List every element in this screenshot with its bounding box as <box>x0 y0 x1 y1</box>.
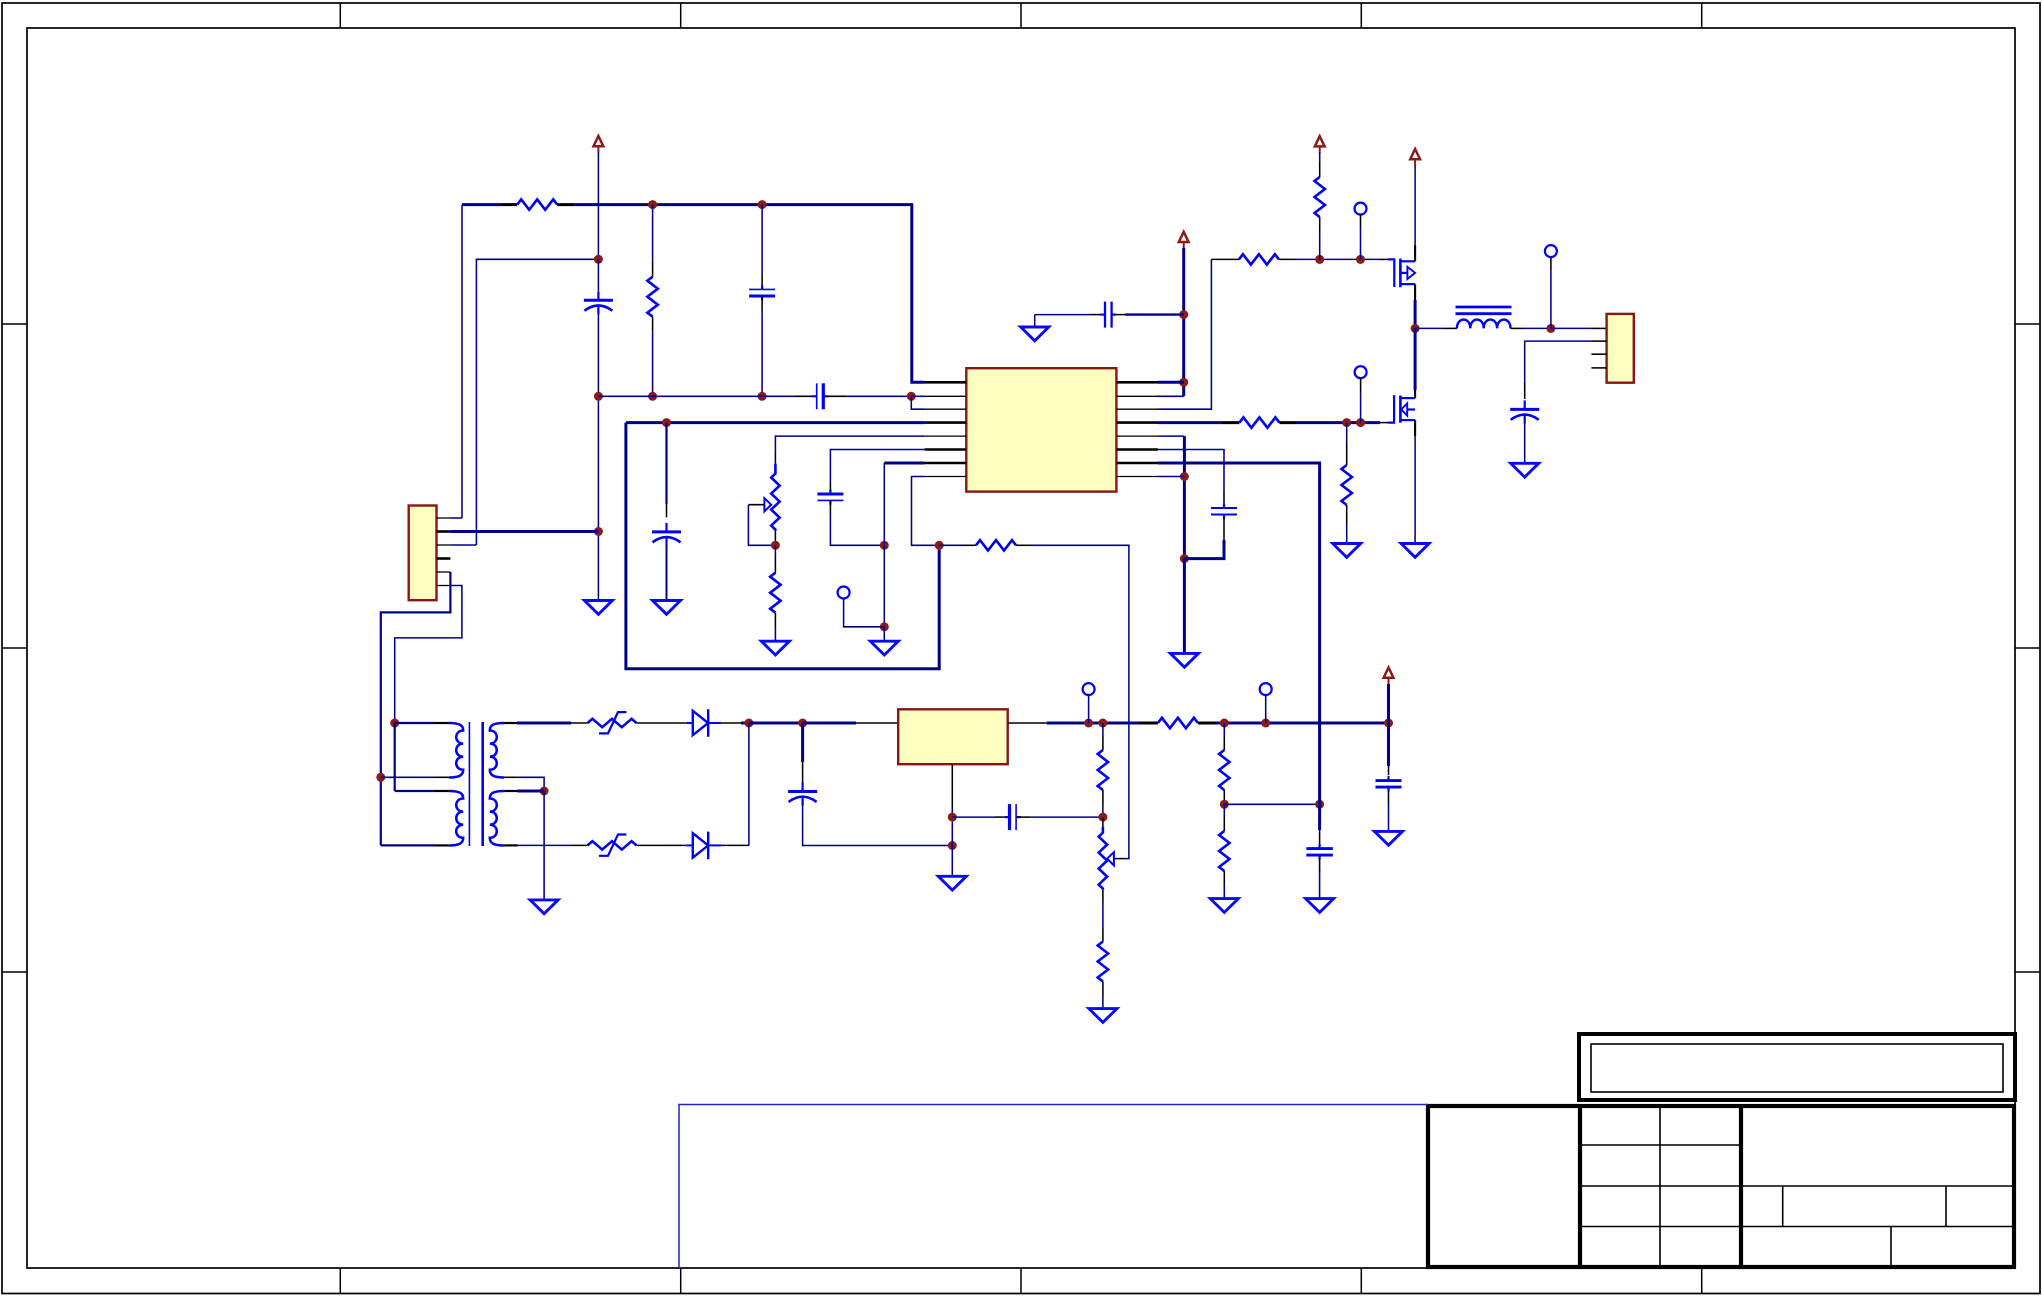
wire C2 bottom <box>761 311 763 396</box>
wire TP2 stub <box>1088 695 1090 723</box>
resistor R9 <box>1219 831 1229 871</box>
capacitor C3 <box>812 383 828 409</box>
junction C6 top <box>798 719 807 728</box>
resistor R13 <box>1342 465 1352 505</box>
trimmer RV1 zigzag <box>771 464 779 531</box>
wire TP5 stub <box>1360 392 1362 423</box>
wire to ground <box>1183 559 1186 654</box>
wire C8 gnd stem <box>1034 315 1036 327</box>
U2 pin 1 lead <box>437 517 451 519</box>
wire R13 bottom lead <box>1346 505 1348 523</box>
junction C1 line / U2 pin2 <box>594 527 603 536</box>
wire primary A bottom lead black <box>435 776 449 778</box>
wire top rail to pin1 <box>574 205 924 383</box>
J1 pin4 stub <box>1591 367 1606 369</box>
wire R7 to ground <box>1102 996 1104 1009</box>
wire RT1 to D1 <box>637 722 687 724</box>
wire C10 to ground <box>1388 804 1390 831</box>
transformer T1 primary winding A <box>449 723 463 778</box>
wire U2 pin2 to C1 ground net <box>450 530 598 533</box>
wire pin2R to VDD <box>1158 395 1184 397</box>
title block right cell divider a <box>1782 1186 1784 1227</box>
junction pin8R <box>1180 472 1189 481</box>
wire R9 top <box>1223 804 1225 817</box>
wire C11 bottom <box>1184 540 1224 559</box>
wire M1 source to SW <box>1414 300 1417 328</box>
wire rectifier node <box>749 722 803 725</box>
junction R2 / pin2 net <box>648 392 657 401</box>
wire M2 source lead <box>1414 420 1416 436</box>
wire R6 top <box>1102 723 1104 736</box>
U1 left pin 4 lead <box>925 421 967 424</box>
junction primary top <box>390 719 399 728</box>
wire U3 ground down <box>951 808 953 876</box>
junction VOUT <box>1546 324 1555 333</box>
wire R9 top lead <box>1223 817 1225 831</box>
wire trimmer2 wiper lead <box>1114 858 1124 860</box>
wire R11 top lead <box>1319 162 1321 177</box>
title block right row line 2 <box>1741 1226 2014 1228</box>
U1 right pin 15 lead <box>1116 462 1158 465</box>
wire center tap link <box>517 777 544 791</box>
wire R1 right lead <box>557 203 574 206</box>
wire R2 bottom <box>652 331 654 396</box>
ground R13 <box>1333 544 1361 558</box>
wire C7 right lead <box>1016 816 1030 818</box>
inductor L1 <box>1457 320 1511 329</box>
wire J1 pin2 lead <box>1591 340 1606 342</box>
bottom margin zone tick 1 <box>339 1268 341 1294</box>
junction pin4L / C4 <box>662 418 671 427</box>
junction pin7L node <box>880 541 889 550</box>
wire C4 top lead <box>666 504 668 517</box>
U1 left pin 5 lead <box>925 435 967 437</box>
U2 pin 4 lead <box>437 557 451 560</box>
wire TP1 stub <box>844 599 885 627</box>
wire U3 ground lead <box>951 764 953 808</box>
wire gate M2 lead <box>1380 422 1388 424</box>
test point TP1 <box>838 587 850 599</box>
polarized capacitor C4 <box>652 523 681 546</box>
ground C8 <box>1021 327 1049 341</box>
wire C7 left lead <box>995 816 1010 818</box>
top margin zone tick 4 <box>1360 3 1362 28</box>
junction VDD / C8 <box>1179 310 1188 319</box>
resistor R1 <box>517 199 557 209</box>
title block heavy divider 1 <box>1578 1106 1582 1267</box>
wire TP6 stub <box>1550 270 1552 328</box>
capacitor C9 <box>1306 844 1333 860</box>
title block middle thin vertical <box>1659 1106 1661 1267</box>
junction C1 line / pin2 net <box>594 392 603 401</box>
wire U2 pin1 jog <box>450 517 462 519</box>
resistor R10 <box>1239 254 1279 264</box>
wire U3 output lead <box>1008 722 1047 724</box>
top margin zone tick 2 <box>680 3 682 28</box>
wire R6 bottom lead <box>1102 790 1104 804</box>
wire TP6 stub lead <box>1550 257 1552 270</box>
wire TP3 stub <box>1265 695 1267 723</box>
capacitor C5 <box>817 489 843 505</box>
top margin zone tick 3 <box>1020 3 1022 28</box>
wire R5 left lead <box>1139 722 1158 725</box>
wire R2 bottom lead <box>652 317 654 332</box>
transistor M1 <box>1388 259 1415 288</box>
wire J1 pin2 to C12 <box>1525 341 1592 382</box>
ground R7 <box>1089 1009 1117 1023</box>
wire C5 to node <box>830 514 884 545</box>
capacitor C7 <box>1005 804 1021 830</box>
ground pin5R net <box>1170 653 1198 667</box>
test point TP6 <box>1545 245 1557 257</box>
wire pin4L run <box>626 421 925 424</box>
wire RV1 wiper to bottom <box>748 505 775 546</box>
transformer T1 primary winding B <box>449 791 463 846</box>
test point TP2 <box>1083 683 1095 695</box>
wire C3 left lead <box>794 395 814 397</box>
wire VCC3 down <box>1319 152 1321 162</box>
wire C10 top lead <box>1388 766 1390 775</box>
U1 right pin 11 lead <box>1116 408 1158 410</box>
wire pin5R <box>1158 435 1184 437</box>
test point TP4 <box>1355 203 1367 215</box>
wire M2 source to ground <box>1414 436 1416 543</box>
wire R4 to ground <box>774 628 776 642</box>
left margin zone tick 1 <box>2 323 27 325</box>
ground C9 <box>1306 899 1334 913</box>
transistor M2 <box>1388 395 1415 423</box>
resistor R7 <box>1098 942 1108 982</box>
wire R11 bottom lead <box>1319 217 1321 232</box>
wire to ground <box>883 627 885 641</box>
resistor R5 <box>1158 718 1198 728</box>
ground C10 <box>1375 831 1403 845</box>
ground C4 <box>653 601 681 615</box>
resistor R4 <box>770 573 780 613</box>
wire C9 top <box>1318 804 1321 830</box>
wire gate M1 <box>1296 258 1380 260</box>
wire C4 top <box>665 423 667 505</box>
wire primary B bottom lead black <box>435 844 449 846</box>
transformer T1 secondary winding B <box>490 791 504 846</box>
wire R8 bottom lead <box>1223 790 1225 804</box>
wire U2 pin3 jog <box>450 544 476 546</box>
junction bus TP3 <box>1261 719 1270 728</box>
junction pin2/pin3 branch <box>907 392 916 401</box>
test point TP3 <box>1260 683 1272 695</box>
right margin zone tick 3 <box>2015 971 2040 973</box>
transformer core line 2 <box>481 722 484 846</box>
wire C5 top lead <box>829 482 831 494</box>
power arrow VCC3 <box>1315 136 1325 153</box>
J1 pin3 stub <box>1591 353 1606 355</box>
wire R10 right lead <box>1279 258 1296 260</box>
wire pin8L loop <box>912 477 940 546</box>
polarized capacitor C12 <box>1510 400 1539 423</box>
wire primary B top lead black <box>435 790 449 792</box>
title block middle row line 1 <box>1580 1144 1741 1146</box>
wire node to TP junction <box>883 545 885 627</box>
ground center tap <box>530 900 558 914</box>
junction primary mid <box>376 773 385 782</box>
wire D1 to node <box>741 722 749 725</box>
power arrow VCC1 <box>594 136 604 153</box>
U1 left pin 7 lead <box>925 462 967 465</box>
wire C9 top lead <box>1319 830 1321 845</box>
wire C12 to ground <box>1524 422 1526 463</box>
junction center tap <box>540 787 549 796</box>
wire to U3 input <box>803 722 856 725</box>
junction U3 gnd / C7 <box>948 813 957 822</box>
thermistor RT2 <box>588 841 637 849</box>
wire SW to L1 <box>1415 327 1443 329</box>
title block main heavy box <box>1428 1106 2014 1267</box>
wire center tap to ground <box>543 791 545 900</box>
junction VDD / pin1R <box>1179 378 1188 387</box>
notes area blue outline <box>679 1105 1428 1269</box>
wire C12 top lead <box>1524 382 1526 399</box>
wire bus to VCC2 <box>1216 722 1389 725</box>
wire R1 left lead <box>502 203 517 206</box>
U1 left pin 2 lead <box>925 395 967 397</box>
junction gate M2 / TP5 <box>1356 418 1365 427</box>
wire R3 to trimmer2 wiper <box>1031 545 1129 858</box>
wire C2 top lead <box>761 275 763 289</box>
wire M2 drain to SW <box>1414 328 1417 390</box>
wire M1 drain to VCC4 <box>1414 165 1416 245</box>
wire C2 top <box>761 205 763 275</box>
wire U2 pin5 to primary bottom <box>381 572 451 845</box>
junction top rail / R2 <box>648 200 657 209</box>
wire L1 to VOUT node <box>1524 327 1551 329</box>
wire RV1 wiper lead <box>748 504 764 506</box>
title block heavy divider 2 <box>1739 1106 1743 1267</box>
transformer T1 secondary winding A <box>490 723 504 778</box>
wire C3 to pin2 <box>846 395 911 397</box>
wire secondary B to RT2 <box>518 844 572 846</box>
wire C8 right lead <box>1115 314 1125 316</box>
wire RV2 top lead <box>1102 817 1104 827</box>
wire C7 left <box>952 816 995 818</box>
resistor R11 <box>1315 177 1325 217</box>
junction SW node <box>1411 324 1420 333</box>
connector J1 <box>1607 314 1634 383</box>
top margin zone tick 1 <box>339 3 341 28</box>
wire M1 drain lead <box>1414 245 1416 261</box>
wire primary A bottom lead <box>381 776 435 778</box>
wire R7 top lead <box>1102 928 1104 942</box>
wire primary B top lead <box>395 790 435 792</box>
wire pin4R gate run <box>1158 421 1222 424</box>
ground C1 <box>584 601 612 615</box>
wire pin4L loop <box>626 423 939 669</box>
wire branch to pin3 <box>911 396 924 409</box>
junction bus R8 chain <box>1220 719 1229 728</box>
wire RV1 to R4 <box>774 545 776 556</box>
wire secondary A to RT1 <box>517 722 571 725</box>
polarized capacitor C1 <box>584 291 613 314</box>
wire R4 top lead <box>774 556 776 573</box>
wire C11 bottom lead <box>1223 517 1225 540</box>
wire gate M2 <box>1296 421 1380 424</box>
wire VCC2 down <box>1387 684 1390 723</box>
wire TP4 stub lead <box>1360 215 1362 228</box>
wire gate M1 lead <box>1380 258 1388 260</box>
wire R12 left lead <box>1222 421 1239 424</box>
capacitor C10 <box>1376 776 1402 792</box>
wire pin3R up <box>1158 259 1211 409</box>
wire secondary B top lead <box>518 790 545 793</box>
junction bus VCC2 <box>1384 719 1393 728</box>
wire M2 drain lead <box>1414 390 1416 398</box>
IC U2 <box>409 506 437 601</box>
wire J1 pin1 lead <box>1591 327 1606 329</box>
junction pin7R net / C9 <box>1315 800 1324 809</box>
wire C4 to ground <box>666 545 668 600</box>
wire pin7L run <box>884 462 924 465</box>
wire RV2 to R7 <box>1102 903 1104 928</box>
junction R8/R9 <box>1220 800 1229 809</box>
inductor L1 ferrite bars <box>1456 306 1512 309</box>
resistor R8 <box>1219 750 1229 790</box>
wire C10 bottom lead <box>1388 791 1390 804</box>
wire top rail left <box>462 203 502 206</box>
wire C8 left <box>1035 314 1091 316</box>
wire C6 bottom to U3 gnd <box>803 804 953 846</box>
U1 right pin 12 lead <box>1116 421 1158 424</box>
ground M2 <box>1401 544 1429 558</box>
junction gate M1 / TP4 <box>1356 255 1365 264</box>
title block right cell divider c <box>1890 1227 1892 1268</box>
junction gate M1 / R11 <box>1315 255 1324 264</box>
junction C1 top <box>594 255 603 264</box>
wire secondary B top lead black <box>504 790 517 792</box>
wire C6 top lead <box>802 762 804 786</box>
wire pin7L down <box>883 463 885 545</box>
wire RT2 left lead <box>571 844 588 846</box>
wire R2 top lead <box>652 262 654 277</box>
wire pin5L to trimmer1 <box>775 436 924 452</box>
wire D2 cathode lead <box>721 844 749 846</box>
wire D1 cathode lead <box>721 722 741 724</box>
thermistor RT1 <box>588 719 637 727</box>
wire U3 input lead <box>856 722 898 724</box>
U1 right pin 14 lead <box>1116 448 1158 451</box>
junction R6 / RV2 <box>1098 813 1107 822</box>
resistor R12 <box>1239 417 1279 427</box>
top margin zone tick 5 <box>1701 3 1703 28</box>
wire U2 pin3 to C1 top <box>476 259 598 545</box>
U1 right pin 16 lead <box>1116 476 1158 478</box>
U2 pin 3 lead <box>437 544 451 546</box>
wire R9 to ground <box>1223 885 1225 899</box>
wire R8 node to C9 node <box>1224 803 1319 805</box>
capacitor C11 <box>1211 503 1237 519</box>
wire TP5 stub lead <box>1360 378 1362 392</box>
wire RT2 to D2 <box>637 844 687 846</box>
left margin zone tick 2 <box>2 647 27 649</box>
wire R11 bottom <box>1319 232 1321 259</box>
trimmer RV2 zigzag <box>1099 827 1107 890</box>
left margin zone tick 3 <box>2 971 27 973</box>
U1 right pin 10 lead <box>1116 395 1158 397</box>
power arrow VCC2 <box>1384 668 1394 685</box>
wire C6 top <box>801 723 804 762</box>
junction C11 bottom <box>1180 554 1189 563</box>
diode D2 <box>686 832 721 860</box>
junction RV1 bottom <box>771 541 780 550</box>
resistor R6 <box>1098 750 1108 790</box>
wire primary link <box>394 723 396 791</box>
power arrow VCC4 <box>1410 149 1420 166</box>
IC U1 main controller <box>966 368 1116 491</box>
wire secondary A top lead black <box>504 722 517 724</box>
wire RT1 left lead <box>571 722 588 724</box>
ground R9 <box>1210 899 1238 913</box>
trimmer RV2 wiper arrow <box>1107 852 1114 865</box>
diode D1 <box>686 709 721 737</box>
ground pin7L node <box>870 641 898 655</box>
U1 right pin 9 lead <box>1116 381 1158 384</box>
junction C2 / pin2 net <box>758 392 767 401</box>
wire primary A top lead <box>395 722 435 724</box>
wire R13 to ground <box>1346 523 1348 544</box>
wire C9 bottom lead <box>1319 859 1321 873</box>
wire C5 bottom lead <box>829 501 831 515</box>
wire R10 left lead <box>1211 258 1239 260</box>
title block right row line 1 <box>1741 1185 2014 1187</box>
wire C11 top lead <box>1223 490 1225 503</box>
wire R5 right lead <box>1198 722 1216 725</box>
U2 pin 5 lead <box>437 571 451 573</box>
wire R4 bottom lead <box>774 613 776 628</box>
U2 pin 2 lead <box>437 530 451 533</box>
test point TP5 <box>1355 366 1367 378</box>
title block right cell divider b <box>1945 1186 1947 1227</box>
wire U2 pin6 to primary top <box>395 586 462 724</box>
wire pin1R to VDD <box>1158 381 1184 384</box>
wire TP4 stub <box>1360 228 1362 259</box>
wire pin8R <box>1158 476 1184 478</box>
polarized capacitor C6 <box>788 783 817 806</box>
ground C12 <box>1511 463 1539 477</box>
wire C9 to ground <box>1319 870 1321 899</box>
bottom margin zone tick 5 <box>1701 1268 1703 1294</box>
wire D2 up to node <box>748 723 750 845</box>
U1 left pin 8 lead <box>925 476 967 478</box>
wire pin7R long run <box>1158 463 1320 804</box>
wire VCC1 down <box>597 152 599 259</box>
wire C8 to VDD <box>1125 313 1184 315</box>
wire RV2 bottom lead <box>1102 890 1104 903</box>
wire R13 top lead <box>1346 442 1348 465</box>
wire pin6L to C5 <box>830 450 924 483</box>
wire secondary B bottom lead black <box>504 844 517 846</box>
U1 left pin 3 lead <box>925 408 967 410</box>
U1 left pin 1 lead <box>925 381 967 384</box>
IC U3 regulator <box>898 709 1008 764</box>
junction bus R6 chain <box>1098 719 1107 728</box>
transformer core line 1 <box>468 722 470 846</box>
U1 left pin 6 lead <box>925 448 967 451</box>
bottom margin zone tick 4 <box>1360 1268 1362 1294</box>
U2 pin 6 lead <box>437 585 451 587</box>
wire R8 top lead <box>1223 736 1225 750</box>
junction gate M2 / R13 <box>1342 418 1351 427</box>
wire C1 to ground <box>597 313 599 601</box>
wire R12 right lead <box>1279 421 1296 424</box>
wire bus U3 out <box>1047 722 1139 725</box>
